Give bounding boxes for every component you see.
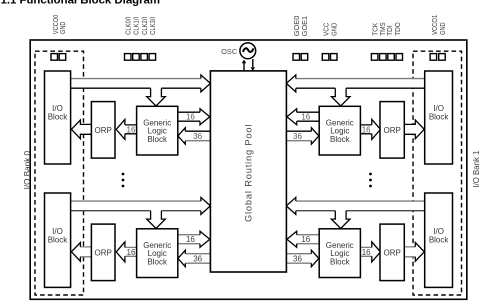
svg-text:GND: GND [330, 23, 339, 36]
arrow 16 GLB2 to ORP2 [125, 247, 137, 256]
svg-text:16: 16 [127, 125, 136, 134]
bus branch arrow down into GLB2 [147, 211, 166, 229]
OSC wire up arrow [243, 63, 245, 72]
wire bus gray top edge [296, 200, 426, 202]
svg-text:16: 16 [362, 248, 371, 257]
arrow 16 GLB1 to ORP1 [125, 125, 137, 134]
svg-text:36: 36 [293, 132, 302, 141]
I/O Block 1 (top left) [45, 71, 71, 164]
svg-text:ORP: ORP [384, 248, 401, 257]
arrow 16 GLB2 to GRP [178, 235, 200, 244]
I/O Block 3 (top right) [425, 71, 453, 164]
svg-text:16: 16 [301, 113, 310, 122]
svg-text:16: 16 [186, 235, 195, 244]
arrow 16 GLB3 to GRP [297, 112, 320, 121]
svg-text:Block: Block [48, 113, 69, 122]
wire bus I/O2 to GRP (white channel) [71, 202, 201, 211]
svg-text:I/O Bank 0: I/O Bank 0 [22, 151, 32, 190]
svg-text:I/O Bank 1: I/O Bank 1 [471, 150, 481, 187]
arrow 36 GRP to GLB2 [185, 253, 210, 255]
arrow 16 GLB4 to GRP [297, 235, 320, 244]
wire bus black bottom edge [71, 87, 201, 89]
svg-text:TDO: TDO [393, 22, 402, 36]
bus arrowhead into GRP left [201, 197, 211, 214]
GLB 3 Generic Logic Block (top right) [319, 106, 360, 155]
wire bus gray top edge [71, 200, 201, 202]
arrow 36 GRP to GLB1 [185, 130, 210, 132]
wire bus black bottom edge [296, 87, 426, 89]
svg-text:16: 16 [186, 113, 195, 122]
bus branch arrow down into GLB4 [331, 211, 350, 229]
svg-text:GOE1: GOE1 [300, 16, 309, 36]
arrow 36 GRP to GLB3 [286, 130, 311, 132]
ORP 4 (bottom right) [380, 224, 404, 281]
bus branch arrow down into GLB3 [331, 88, 350, 106]
arrow 36 GRP to GLB4 [286, 253, 311, 255]
I/O Bank 1 dashed box [413, 51, 462, 295]
wire bus black bottom edge [296, 210, 426, 212]
wire bus I/O3 to GRP (white channel) [296, 79, 426, 88]
svg-text:16: 16 [127, 248, 136, 257]
svg-text:16: 16 [301, 235, 310, 244]
bus arrowhead into GRP left [201, 75, 211, 92]
GLB 1 Generic Logic Block (top left) [137, 106, 178, 155]
arrow ORP4 to I/O4 [404, 243, 424, 262]
OSC wire down arrow [252, 59, 254, 67]
outer device boundary box [30, 40, 467, 299]
wire bus I/O4 to GRP (white channel) [296, 202, 426, 211]
GRP Global Routing Pool [210, 71, 286, 272]
svg-text:GND: GND [58, 22, 67, 35]
svg-text:ORP: ORP [95, 126, 112, 135]
pin squares GOE [293, 54, 308, 61]
svg-text:CLK3/I: CLK3/I [148, 17, 157, 35]
GLB 4 Generic Logic Block (bottom right) [319, 229, 360, 278]
bus arrowhead into GRP right [286, 197, 296, 214]
pin squares VCC/GND [322, 54, 337, 61]
svg-text:Block: Block [330, 135, 351, 144]
svg-text:Global Routing Pool: Global Routing Pool [244, 125, 254, 223]
svg-text:Block: Block [330, 258, 351, 267]
svg-text:OSC: OSC [221, 47, 238, 56]
arrow 16 GLB3 to ORP3 [361, 125, 372, 134]
svg-text:Block: Block [429, 113, 450, 122]
ORP 2 (bottom left) [91, 224, 115, 281]
arrow ORP1 to I/O1 [71, 120, 91, 139]
svg-text:Block: Block [147, 258, 168, 267]
I/O Block 2 (bottom left) [45, 193, 71, 287]
svg-text:GND: GND [438, 22, 447, 35]
svg-text:16: 16 [362, 125, 371, 134]
pin squares TCK/TMS/TDI/TDO [371, 54, 402, 61]
OSC oscillator symbol [240, 43, 256, 59]
ellipsis dots right [369, 173, 372, 188]
svg-text:Block: Block [429, 236, 450, 245]
wire bus I/O1 to GRP (white channel) [71, 79, 201, 88]
pin squares VCCO0/GND left [51, 54, 66, 61]
svg-text:Block: Block [48, 236, 69, 245]
I/O Bank 0 dashed box [35, 51, 84, 295]
pin squares VCCO1/GND [430, 54, 445, 61]
wire bus gray top edge [296, 78, 426, 80]
arrow ORP3 to I/O3 [404, 120, 424, 139]
arrow ORP2 to I/O2 [71, 243, 91, 262]
bus branch arrow down into GLB1 [147, 88, 166, 106]
svg-text:Block: Block [147, 135, 168, 144]
wire bus gray top edge [71, 78, 201, 80]
arrow 16 GLB1 to GRP [178, 112, 200, 121]
ORP 3 (top right) [380, 102, 404, 159]
svg-text:1.1 Functional Block Diagram: 1.1 Functional Block Diagram [1, 0, 161, 7]
ellipsis dots left [122, 173, 125, 188]
arrow 16 GLB4 to ORP4 [361, 247, 372, 256]
svg-text:36: 36 [293, 255, 302, 264]
ORP 1 (top left) [91, 102, 115, 159]
svg-text:ORP: ORP [384, 126, 401, 135]
svg-text:36: 36 [193, 132, 202, 141]
bus arrowhead into GRP right [286, 75, 296, 92]
I/O Block 4 (bottom right) [425, 193, 453, 287]
pin squares CLK [125, 54, 156, 61]
svg-text:ORP: ORP [95, 248, 112, 257]
wire bus black bottom edge [71, 210, 201, 212]
svg-text:36: 36 [193, 255, 202, 264]
GLB 2 Generic Logic Block (bottom left) [137, 229, 178, 278]
